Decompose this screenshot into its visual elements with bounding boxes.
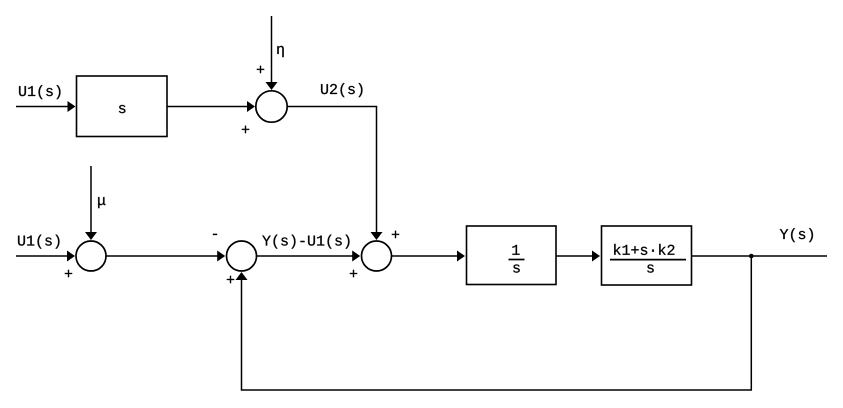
sign + for eta at sum A [257, 66, 264, 73]
fraction bar of block G2 [509, 259, 525, 261]
wire: sum C to sum D carrying Y(s)-U1(s) [257, 255, 353, 257]
summing junction D [362, 241, 392, 271]
label s denominator of block G2 [513, 264, 520, 272]
block G2: 1/s [467, 226, 557, 285]
sign + for U1(s) at sum B [65, 270, 72, 277]
label U1(s) at lower input [18, 235, 59, 249]
sign + for block G1 output at sum A [242, 126, 249, 133]
label k1+s*k2 numerator of block G3 [614, 244, 674, 255]
wire: U1(s) input to block G1 [16, 106, 68, 108]
wire: noise eta into sum A [271, 16, 273, 83]
wire: sum A to sum D carrying U2(s) [287, 107, 376, 233]
block G3: (k1+s*k2)/s [602, 226, 692, 285]
junction node on Y(s) wire [749, 254, 754, 259]
label Y(s)-U1(s) [262, 235, 349, 249]
wire: block G3 output to Y(s) [692, 255, 828, 257]
wire: block G1 to sum A [167, 106, 248, 108]
wire: block G2 to block G3 [556, 255, 593, 257]
summing junction A [256, 91, 287, 122]
sign + at left of sum D [350, 270, 357, 277]
fraction bar of block G3 [610, 259, 686, 261]
summing junction B [76, 241, 106, 271]
label U1(s) at top input [19, 85, 60, 99]
label 1 numerator of block G2 [512, 245, 519, 255]
wire: sum B to sum C [106, 255, 218, 257]
wire: feedback from Y(s) node to sum C [242, 256, 752, 390]
label s inside block G1 [119, 105, 126, 113]
label Y(s) output [780, 228, 813, 242]
label eta noise input [277, 46, 283, 57]
sign + at bottom of sum C [227, 276, 234, 283]
wire: sum D to integrator block G2 [392, 255, 458, 257]
block G1: s [77, 76, 168, 137]
wire: U1(s) input to sum B [16, 255, 68, 257]
label mu noise input [98, 197, 105, 208]
sign - for feedback at sum C [213, 234, 217, 235]
wire: mu into sum B [90, 166, 92, 233]
sign + for U2(s) at sum D [392, 231, 399, 238]
label s denominator of block G3 [647, 264, 654, 272]
summing junction C [227, 241, 257, 271]
label U2(s) [321, 83, 362, 97]
